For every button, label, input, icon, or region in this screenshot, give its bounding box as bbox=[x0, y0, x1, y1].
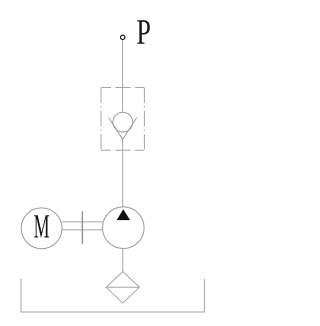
check valve ball circle bbox=[113, 112, 133, 132]
wire: check valve to pump inlet bbox=[122, 139, 124, 207]
filter diamond bbox=[106, 272, 139, 304]
shaft upper line bbox=[62, 221, 103, 223]
enclosure box top edge (dash-dot) bbox=[101, 87, 144, 89]
pump flow triangle bbox=[117, 209, 131, 220]
label M bbox=[34, 215, 49, 237]
enclosure box bottom edge (dash-dot) bbox=[101, 149, 144, 151]
enclosure box right edge (dash-dot) bbox=[143, 88, 145, 151]
label P bbox=[137, 20, 150, 43]
node P terminal circle bbox=[121, 35, 125, 39]
tank reservoir bbox=[21, 279, 204, 312]
wire: pump outlet down to filter bbox=[122, 249, 124, 272]
coupling tick bbox=[81, 211, 83, 244]
enclosure box left edge (dash-dot) bbox=[100, 88, 102, 151]
check valve seat V bbox=[109, 118, 137, 140]
filter element line bbox=[106, 286, 139, 288]
wire: P port down through enclosure to check valve ball bbox=[122, 40, 124, 112]
pump circle bbox=[103, 207, 145, 249]
motor M circle bbox=[21, 208, 62, 249]
shaft lower line bbox=[62, 229, 103, 231]
